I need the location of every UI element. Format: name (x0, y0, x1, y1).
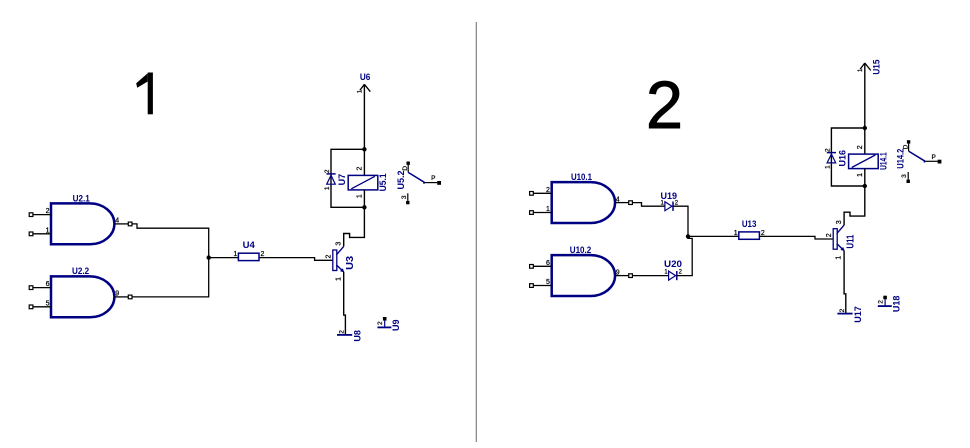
svg-text:9: 9 (115, 291, 119, 298)
wire U11 collector to relay lower junction (844, 186, 865, 225)
wire junction to resistor U13 (688, 235, 739, 237)
svg-text:2: 2 (857, 145, 864, 149)
AND gate U10.1 (552, 172, 615, 223)
svg-text:U5.2: U5.2 (396, 171, 407, 190)
relay switch U14.2 (895, 140, 941, 183)
wire diode U19 to junction node (673, 206, 688, 236)
svg-text:U7: U7 (337, 174, 347, 186)
svg-text:U14.1: U14.1 (879, 152, 889, 170)
svg-text:1: 1 (857, 173, 864, 177)
relay upper junction node (863, 126, 867, 130)
wire resistor U4 to transistor U3 base (259, 258, 333, 261)
U10.1 input pin 2 wire and terminal (530, 187, 552, 195)
svg-text:5: 5 (546, 279, 550, 286)
svg-text:1: 1 (664, 269, 668, 275)
divider line between panel 1 and panel 2 (475, 22, 477, 442)
relay switch U5.2 (396, 162, 441, 205)
U2.1 output pin 4 wire and terminal (114, 218, 132, 226)
ground terminal U17 (837, 306, 863, 323)
svg-text:2: 2 (339, 330, 346, 334)
svg-text:U13: U13 (742, 219, 757, 230)
U2.2 input pin 5 wire and terminal (29, 300, 51, 308)
svg-text:U2.1: U2.1 (73, 194, 91, 205)
wire power U6 down to relay (363, 85, 365, 176)
svg-text:1: 1 (357, 194, 364, 198)
svg-text:U5.1: U5.1 (378, 173, 388, 191)
resistor U13 (734, 219, 765, 239)
diode U7 (324, 169, 347, 190)
svg-text:2: 2 (46, 208, 50, 215)
svg-text:U9: U9 (391, 319, 401, 331)
svg-text:2: 2 (326, 255, 333, 259)
U2.1 input pin 1 wire and terminal (29, 227, 51, 235)
svg-text:2: 2 (324, 169, 331, 173)
svg-text:2: 2 (877, 300, 884, 304)
svg-text:3: 3 (836, 220, 843, 224)
svg-text:D: D (903, 144, 910, 149)
svg-text:2: 2 (357, 167, 364, 171)
svg-text:1: 1 (546, 206, 550, 213)
wire left branch with diode U16 (831, 128, 864, 186)
svg-text:6: 6 (546, 260, 550, 267)
svg-text:1: 1 (233, 251, 237, 258)
resistor U4 (233, 240, 264, 260)
wire junction to resistor U4 (209, 257, 239, 259)
relay lower junction node (362, 205, 366, 209)
svg-text:P: P (932, 154, 936, 161)
power symbol U6 (358, 72, 371, 93)
svg-text:5: 5 (46, 300, 50, 307)
wire left branch with diode U7 (331, 149, 364, 207)
wire relay coil to lower junction (363, 190, 365, 207)
U10.2 input pin 6 wire and terminal (530, 260, 552, 268)
power symbol U15 (858, 60, 882, 75)
U2.1 input pin 2 wire and terminal (29, 208, 51, 216)
svg-text:6: 6 (46, 281, 50, 288)
svg-text:1: 1 (46, 227, 50, 234)
relay coil U5.1 (348, 167, 388, 199)
svg-text:1: 1 (824, 165, 831, 169)
AND gate U2.1 (51, 194, 114, 245)
U10.1 output pin 4 wire and terminal (615, 196, 632, 204)
relay lower junction node (863, 184, 867, 188)
svg-text:U16: U16 (837, 150, 847, 167)
svg-text:3: 3 (401, 195, 408, 199)
U2.2 output pin 9 wire and terminal (114, 291, 132, 299)
diode U16 (824, 148, 847, 169)
svg-text:1: 1 (734, 230, 738, 237)
transistor U11 (826, 220, 857, 259)
diode U19 (661, 191, 679, 211)
wire U2.2 output to junction node (132, 258, 209, 297)
junction node at gate outputs (207, 255, 211, 259)
svg-text:1: 1 (335, 277, 342, 281)
svg-text:U8: U8 (353, 330, 363, 342)
svg-text:2: 2 (377, 321, 384, 325)
relay upper junction node (362, 147, 366, 151)
wire U3 collector to relay lower junction (344, 207, 365, 246)
svg-text:1: 1 (661, 200, 665, 206)
wire U3 emitter to ground U8 (344, 272, 346, 335)
svg-text:P: P (431, 175, 435, 182)
wire U2.1 output to junction node (132, 224, 209, 258)
wire relay coil to lower junction (864, 169, 866, 186)
U10.2 output pin 9 wire and terminal (615, 269, 632, 277)
AND gate U2.2 (51, 266, 114, 317)
svg-text:3: 3 (901, 174, 908, 178)
wire diode U20 up to junction node (677, 236, 692, 275)
U10.1 input pin 1 wire and terminal (530, 206, 552, 214)
svg-text:U10.1: U10.1 (571, 172, 593, 183)
ground terminal U9 (377, 317, 401, 331)
wire U10.2 output to diode U20 (632, 275, 668, 277)
svg-text:9: 9 (616, 269, 620, 276)
AND gate U10.2 (552, 245, 615, 296)
svg-text:U4: U4 (243, 240, 256, 251)
transistor U3 (326, 242, 357, 281)
svg-text:U20: U20 (664, 259, 682, 269)
svg-text:U19: U19 (661, 191, 678, 201)
svg-text:D: D (402, 166, 409, 171)
svg-text:3: 3 (335, 242, 342, 246)
svg-text:U15: U15 (872, 60, 882, 75)
wire U10.1 output to diode U19 (632, 203, 665, 207)
ground terminal U18 (877, 296, 901, 313)
ground terminal U8 (337, 330, 363, 342)
svg-text:2: 2 (824, 148, 831, 152)
panel number 2 (646, 69, 683, 143)
svg-text:U18: U18 (891, 296, 901, 313)
wire U11 emitter to ground U17 (844, 251, 846, 314)
svg-text:1: 1 (324, 186, 331, 190)
relay coil U14.1 (849, 145, 889, 177)
svg-text:U17: U17 (853, 306, 863, 323)
svg-text:2: 2 (839, 308, 846, 312)
panel number 1 (136, 73, 153, 115)
wire resistor U13 to transistor U11 base (759, 236, 833, 239)
svg-text:2: 2 (646, 69, 683, 143)
svg-text:4: 4 (616, 196, 620, 203)
svg-text:U14.2: U14.2 (895, 149, 906, 169)
svg-text:U11: U11 (846, 234, 857, 248)
U10.2 input pin 5 wire and terminal (530, 279, 552, 287)
svg-text:4: 4 (115, 218, 119, 225)
U2.2 input pin 6 wire and terminal (29, 281, 51, 289)
svg-text:2: 2 (826, 233, 833, 237)
junction node at diode outputs (686, 234, 690, 238)
svg-text:2: 2 (675, 200, 679, 206)
svg-text:U3: U3 (345, 255, 356, 269)
svg-text:2: 2 (546, 187, 550, 194)
diode U20 (664, 259, 683, 280)
svg-text:1: 1 (836, 256, 843, 260)
svg-text:U6: U6 (360, 72, 371, 82)
svg-text:2: 2 (679, 269, 683, 275)
wire power U15 down to relay (864, 64, 866, 155)
